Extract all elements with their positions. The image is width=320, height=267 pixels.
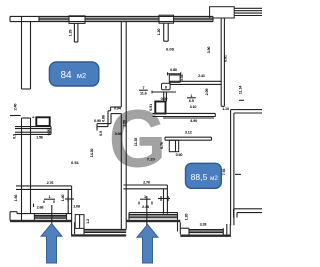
svg-text:м2: м2 (210, 175, 218, 182)
svg-text:88,5: 88,5 (191, 172, 208, 182)
door marks unit2 (158, 198, 170, 200)
svg-text:1.20: 1.20 (157, 29, 161, 36)
right wall upper (220, 18, 222, 106)
svg-text:0.9: 0.9 (99, 131, 103, 136)
svg-text:0.91: 0.91 (149, 104, 153, 111)
wall segment verticals (38, 16, 40, 21)
dim line to arrow 1 (51, 205, 53, 227)
window glazing mid segment (85, 17, 159, 19)
door line room 8 (152, 91, 176, 93)
room 84 label (49, 62, 98, 86)
room 88.5 label (186, 163, 222, 188)
svg-text:2.48: 2.48 (142, 205, 149, 209)
bathroom wall band (16, 185, 72, 187)
mid bottom window (129, 212, 178, 214)
bay2 step wall (177, 222, 179, 231)
unit2 hall right wall (163, 189, 165, 214)
window glazing top-left segment (39, 17, 69, 19)
svg-text:1: 1 (190, 94, 192, 98)
far-right bottom wall fragment (233, 209, 235, 218)
svg-text:11.35: 11.35 (134, 138, 138, 147)
svg-text:6.81: 6.81 (224, 55, 228, 62)
arrow 1 (41, 224, 62, 264)
svg-text:3.28: 3.28 (200, 222, 207, 226)
svg-text:1.50: 1.50 (122, 120, 126, 127)
right outer wall lower (230, 110, 232, 226)
bottom-left outer wall (10, 211, 17, 213)
dim line 4.90 (163, 117, 214, 119)
bay2 window sill (189, 229, 223, 231)
svg-text:3.10: 3.10 (190, 105, 197, 109)
wall room 6.5 top (170, 80, 221, 82)
arrow 2 (137, 225, 158, 264)
window band far right (234, 7, 262, 9)
pier P1 (69, 16, 85, 24)
svg-text:1.08: 1.08 (73, 205, 80, 209)
shaft jog walls (111, 106, 122, 108)
left outer wall lower (21, 118, 23, 222)
svg-text:0.70: 0.70 (160, 142, 164, 149)
divider wall bottom (120, 188, 122, 229)
pier P3 (169, 75, 180, 82)
svg-text:11.14: 11.14 (238, 85, 242, 95)
svg-text:0.54: 0.54 (180, 74, 184, 82)
svg-text:0.90: 0.90 (94, 119, 101, 123)
svg-text:84: 84 (60, 70, 72, 81)
svg-text:6.51: 6.51 (71, 160, 80, 165)
bathroom right wall (67, 190, 69, 214)
svg-text:м2: м2 (77, 71, 86, 80)
top wall band (10, 15, 213, 17)
balcony door block (75, 215, 84, 229)
svg-text:7.20: 7.20 (147, 157, 156, 162)
bay1 window sill (84, 228, 126, 230)
wall to right edge (237, 109, 262, 111)
wall left of room 6.5 (163, 93, 165, 102)
kitchen wall (165, 136, 212, 138)
svg-text:2.40: 2.40 (14, 104, 18, 111)
left outer wall upper (21, 16, 23, 89)
svg-text:1.10: 1.10 (222, 107, 229, 111)
svg-text:0.86: 0.86 (102, 115, 106, 122)
left unit: wc wall band (15, 126, 51, 128)
corridor wall (153, 112, 216, 114)
svg-text:1.20: 1.20 (185, 214, 189, 221)
svg-text:3.90: 3.90 (207, 47, 211, 54)
unit divider wall upper (120, 22, 122, 107)
svg-text:8: 8 (165, 86, 167, 90)
tick on right wall (235, 173, 241, 175)
window glazing right segment (174, 17, 213, 19)
svg-text:14.30: 14.30 (90, 149, 94, 158)
svg-text:0.60: 0.60 (176, 153, 183, 157)
shaft box S2 (36, 117, 49, 126)
svg-text:0.94: 0.94 (114, 107, 122, 111)
window bottom-left glazing (34, 214, 66, 216)
dim line to arrow 2 (146, 196, 148, 227)
svg-text:4.90: 4.90 (190, 119, 197, 123)
pier P2 stem wall (163, 23, 165, 41)
pier P4 (169, 140, 178, 152)
svg-text:0.60: 0.60 (161, 97, 168, 101)
svg-text:7: 7 (142, 86, 144, 90)
pier P2 (159, 15, 174, 23)
shaft lower walls (97, 123, 111, 125)
svg-text:11.6: 11.6 (140, 91, 147, 95)
bay1 left wall (71, 214, 73, 237)
svg-text:6.5: 6.5 (189, 99, 194, 103)
svg-text:6.08: 6.08 (166, 47, 175, 52)
svg-text:0.9: 0.9 (13, 134, 17, 139)
corner block top-right (210, 7, 235, 18)
svg-text:2.68: 2.68 (37, 206, 44, 210)
svg-text:1: 1 (144, 195, 146, 199)
bay2 right wall (226, 224, 228, 237)
svg-text:1.66: 1.66 (14, 195, 18, 202)
shaft box S1 (155, 102, 165, 114)
svg-text:2.09: 2.09 (205, 89, 209, 96)
svg-text:1.2: 1.2 (86, 219, 90, 224)
tick near 1.10 (239, 99, 244, 101)
svg-text:1.40: 1.40 (61, 195, 65, 202)
svg-text:2.41: 2.41 (198, 74, 205, 78)
pier P1 stem wall (73, 23, 75, 42)
svg-text:1.29: 1.29 (69, 30, 73, 37)
svg-text:0.94: 0.94 (115, 132, 123, 136)
svg-text:1: 1 (49, 195, 51, 199)
svg-text:7.93: 7.93 (222, 169, 226, 176)
svg-text:3.12: 3.12 (185, 130, 192, 134)
divider wall resumes below shaft (120, 114, 122, 188)
unit2 hall wall (124, 184, 168, 186)
svg-text:0.80: 0.80 (170, 68, 177, 72)
label 8 box (162, 83, 171, 90)
svg-text:1.56: 1.56 (36, 135, 43, 139)
svg-text:2.76: 2.76 (47, 181, 54, 185)
svg-text:2.76: 2.76 (143, 180, 150, 184)
svg-text:0.50: 0.50 (47, 129, 51, 136)
